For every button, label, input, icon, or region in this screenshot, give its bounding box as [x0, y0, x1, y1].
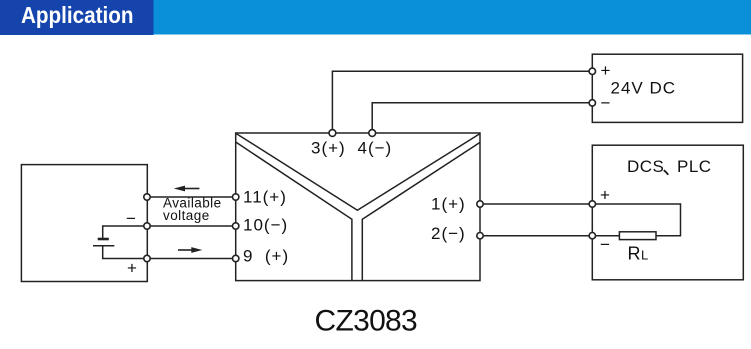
svg-text:Application: Application	[21, 2, 134, 28]
svg-text:1(+): 1(+)	[431, 194, 466, 213]
svg-text:voltage: voltage	[163, 208, 210, 223]
svg-text:PLC: PLC	[677, 157, 712, 176]
svg-text:−: −	[126, 209, 136, 228]
svg-text:9 (+): 9 (+)	[243, 247, 289, 266]
svg-text:24V DC: 24V DC	[611, 79, 677, 98]
svg-text:11(+): 11(+)	[243, 188, 287, 207]
svg-text:L: L	[641, 248, 648, 263]
svg-text:CZ3083: CZ3083	[315, 305, 418, 338]
svg-text:+: +	[600, 186, 610, 205]
svg-text:DCS: DCS	[627, 157, 664, 176]
svg-text:10(−): 10(−)	[243, 216, 288, 235]
svg-text:−: −	[600, 235, 610, 254]
svg-text:+: +	[601, 61, 611, 80]
svg-text:2(−): 2(−)	[431, 224, 466, 243]
svg-text:R: R	[628, 244, 641, 264]
svg-text:−: −	[601, 93, 611, 112]
svg-text:4(−): 4(−)	[358, 139, 393, 158]
svg-text:3(+): 3(+)	[311, 139, 346, 158]
svg-text:+: +	[127, 259, 137, 278]
